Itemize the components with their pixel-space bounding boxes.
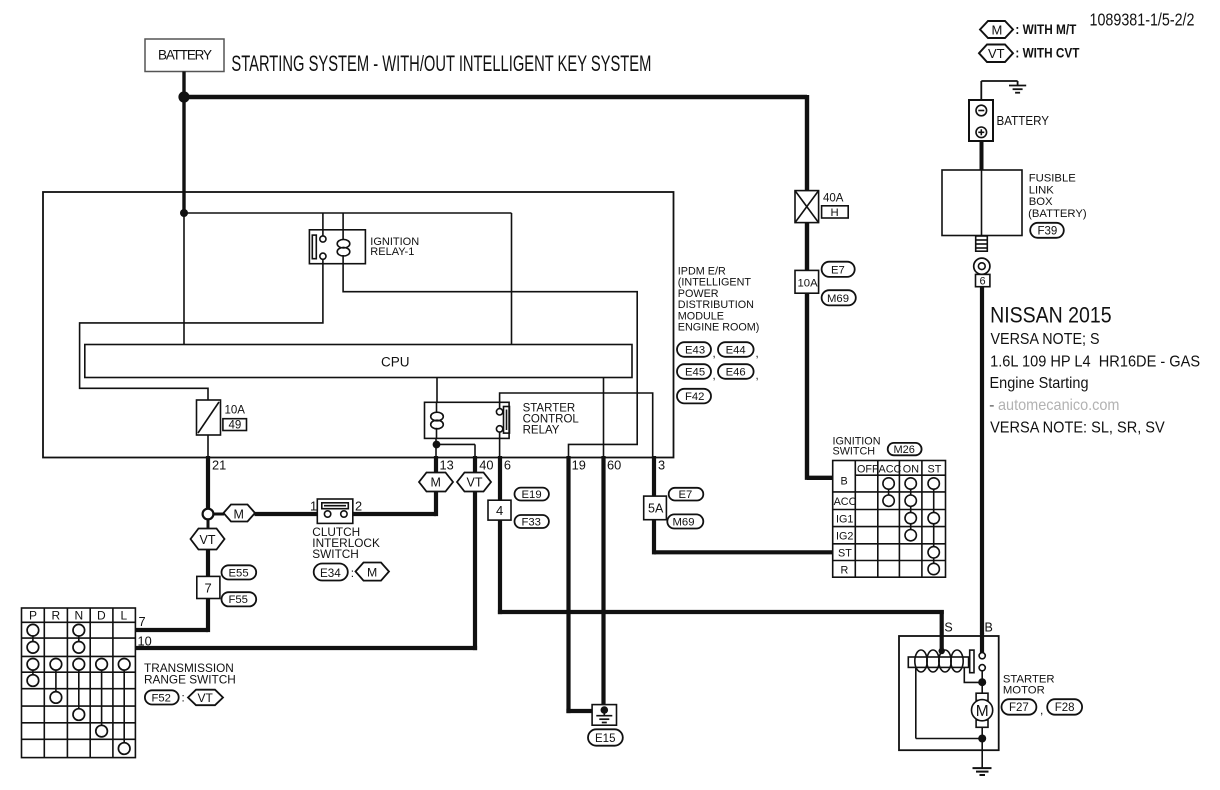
svg-text:6: 6 <box>504 457 511 472</box>
svg-text:60: 60 <box>607 457 621 472</box>
svg-text:RELAY-1: RELAY-1 <box>370 246 414 258</box>
svg-text:ACC: ACC <box>834 496 857 508</box>
svg-text:M69: M69 <box>827 293 849 305</box>
svg-text:E45: E45 <box>685 366 705 378</box>
svg-text:automecanico.com: automecanico.com <box>998 397 1120 414</box>
svg-text:VT: VT <box>200 533 216 547</box>
svg-text:,: , <box>1040 703 1043 717</box>
svg-text:M: M <box>976 703 989 720</box>
svg-text:,: , <box>713 370 716 382</box>
svg-text:P: P <box>29 609 37 623</box>
svg-text:1089381-1/5-2/2: 1089381-1/5-2/2 <box>1090 10 1195 30</box>
svg-text:M: M <box>992 22 1003 37</box>
svg-text:D: D <box>97 609 106 623</box>
svg-text:E15: E15 <box>595 733 615 745</box>
svg-text:(INTELLIGENT: (INTELLIGENT <box>678 277 752 289</box>
svg-text:DISTRIBUTION: DISTRIBUTION <box>678 299 754 311</box>
svg-text:1: 1 <box>310 499 317 514</box>
svg-text:IG1: IG1 <box>836 514 853 526</box>
svg-text:M: M <box>431 476 441 490</box>
svg-text:FUSIBLE: FUSIBLE <box>1029 173 1077 185</box>
svg-text:VT: VT <box>988 46 1005 61</box>
svg-text:19: 19 <box>572 457 586 472</box>
svg-text:M: M <box>367 565 377 579</box>
svg-text:POWER: POWER <box>678 288 719 300</box>
svg-text:10: 10 <box>138 634 152 649</box>
svg-text:: WITH M/T: : WITH M/T <box>1015 22 1077 37</box>
svg-text:21: 21 <box>212 457 226 472</box>
svg-text:1.6L 109 HP L4 HR16DE - GAS: 1.6L 109 HP L4 HR16DE - GAS <box>990 353 1200 370</box>
svg-text:,: , <box>756 370 759 382</box>
svg-text:(BATTERY): (BATTERY) <box>1028 208 1087 220</box>
svg-text:5A: 5A <box>648 502 664 516</box>
svg-text:VT: VT <box>198 691 214 705</box>
svg-text:NISSAN 2015: NISSAN 2015 <box>990 303 1112 328</box>
svg-text:MOTOR: MOTOR <box>1003 685 1045 697</box>
svg-text:SWITCH: SWITCH <box>312 547 359 561</box>
svg-text::: : <box>351 566 354 580</box>
svg-text:E34: E34 <box>320 567 341 580</box>
svg-text:13: 13 <box>440 457 454 472</box>
svg-text:ACC: ACC <box>879 464 902 476</box>
svg-text:,: , <box>713 348 716 360</box>
svg-text:10A: 10A <box>225 405 246 417</box>
svg-text:RELAY: RELAY <box>523 425 560 437</box>
svg-text:F33: F33 <box>522 516 541 528</box>
svg-text:40: 40 <box>479 457 493 472</box>
svg-text:IG2: IG2 <box>836 531 853 543</box>
svg-text:7: 7 <box>139 614 146 629</box>
svg-text:B: B <box>841 476 848 488</box>
svg-text:ENGINE ROOM): ENGINE ROOM) <box>678 322 760 334</box>
svg-text:LINK: LINK <box>1029 184 1055 196</box>
svg-text:M26: M26 <box>894 444 915 456</box>
svg-text:SWITCH: SWITCH <box>833 446 876 458</box>
svg-text:VERSA NOTE: SL, SR, SV: VERSA NOTE: SL, SR, SV <box>990 420 1165 437</box>
svg-text:B: B <box>985 621 993 635</box>
svg-text:N: N <box>75 609 84 623</box>
svg-text:F27: F27 <box>1009 702 1029 714</box>
svg-text:RANGE SWITCH: RANGE SWITCH <box>144 673 236 687</box>
svg-text:VT: VT <box>467 476 483 490</box>
svg-text:STARTING SYSTEM - WITH/OUT INT: STARTING SYSTEM - WITH/OUT INTELLIGENT K… <box>231 51 651 76</box>
svg-text:OFF: OFF <box>857 464 879 476</box>
svg-text:-: - <box>989 397 994 414</box>
svg-text:R: R <box>841 565 849 577</box>
svg-text:3: 3 <box>658 457 665 472</box>
svg-text:CPU: CPU <box>381 355 410 370</box>
svg-text:E55: E55 <box>229 567 249 579</box>
svg-text:40A: 40A <box>823 193 844 205</box>
svg-text:: WITH CVT: : WITH CVT <box>1015 46 1080 61</box>
svg-text:ON: ON <box>903 464 919 476</box>
svg-text:49: 49 <box>229 420 242 432</box>
svg-text:M69: M69 <box>673 517 695 529</box>
svg-text:L: L <box>121 609 128 623</box>
svg-text:F55: F55 <box>229 594 248 606</box>
svg-text:BOX: BOX <box>1029 196 1053 208</box>
svg-text:R: R <box>52 609 61 623</box>
svg-text:ST: ST <box>838 548 852 560</box>
svg-text:E43: E43 <box>685 344 705 356</box>
svg-text:H: H <box>831 207 839 219</box>
svg-text:2: 2 <box>355 499 362 514</box>
svg-text::: : <box>182 693 185 705</box>
svg-text:MODULE: MODULE <box>678 310 724 322</box>
svg-text:E19: E19 <box>522 489 542 501</box>
svg-text:M: M <box>234 507 244 521</box>
svg-text:ST: ST <box>928 464 942 476</box>
svg-text:F42: F42 <box>685 391 704 403</box>
svg-text:F39: F39 <box>1038 226 1058 238</box>
svg-text:7: 7 <box>205 581 212 596</box>
svg-text:E46: E46 <box>726 366 746 378</box>
svg-text:VERSA NOTE; S: VERSA NOTE; S <box>991 331 1100 348</box>
svg-text:10A: 10A <box>798 277 819 289</box>
svg-text:BATTERY: BATTERY <box>158 48 212 63</box>
svg-text:STARTER: STARTER <box>1003 673 1055 685</box>
svg-text:E44: E44 <box>726 344 746 356</box>
svg-text:E7: E7 <box>679 489 693 501</box>
svg-text:6: 6 <box>980 276 986 288</box>
svg-text:E7: E7 <box>831 264 845 276</box>
svg-text:F28: F28 <box>1055 702 1075 714</box>
svg-text:BATTERY: BATTERY <box>997 113 1050 128</box>
svg-text:S: S <box>944 621 952 635</box>
svg-text:F52: F52 <box>152 692 171 704</box>
svg-text:,: , <box>756 348 759 360</box>
svg-text:4: 4 <box>496 503 503 518</box>
svg-text:IPDM E/R: IPDM E/R <box>678 266 726 278</box>
svg-text:Engine Starting: Engine Starting <box>990 375 1089 392</box>
